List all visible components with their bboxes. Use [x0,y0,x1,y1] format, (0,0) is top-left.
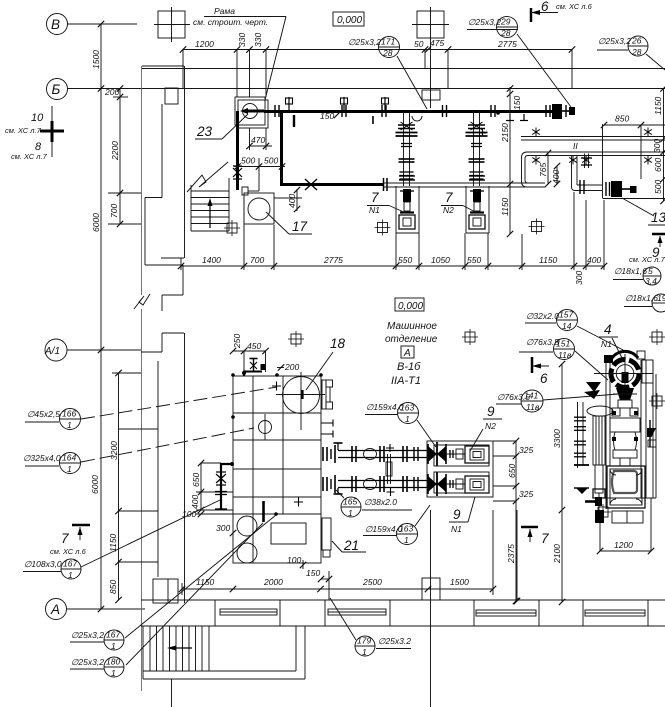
svg-text:166: 166 [62,409,76,419]
svg-text:1: 1 [362,647,367,657]
svg-text:4: 4 [604,322,612,337]
svg-text:В: В [51,17,60,32]
svg-text:180: 180 [106,657,120,667]
svg-text:1150: 1150 [500,197,510,216]
svg-text:164: 164 [62,453,76,463]
svg-text:13: 13 [651,210,665,225]
svg-text:А/1: А/1 [44,346,60,357]
svg-text:330: 330 [237,33,247,47]
svg-text:400: 400 [587,255,601,265]
svg-text:165: 165 [343,497,357,507]
svg-text:∅25x3,2: ∅25x3,2 [468,17,501,27]
svg-text:1: 1 [405,414,410,424]
svg-text:А: А [403,348,411,359]
svg-text:1: 1 [111,641,116,651]
svg-text:19: 19 [657,293,665,303]
svg-text:см. ХС л.7: см. ХС л.7 [11,152,48,161]
svg-text:600: 600 [653,158,663,172]
svg-text:5: 5 [648,266,653,276]
svg-text:11в: 11в [558,350,572,360]
svg-text:6000: 6000 [91,213,101,232]
svg-text:1: 1 [404,535,409,545]
svg-text:N2: N2 [485,421,496,431]
svg-text:500: 500 [241,156,255,166]
svg-text:II: II [573,141,578,151]
svg-text:470: 470 [251,135,265,145]
svg-text:2200: 2200 [110,141,120,161]
svg-text:11в: 11в [526,402,540,412]
svg-text:∅25x3.2: ∅25x3.2 [378,636,411,646]
svg-text:550: 550 [467,255,481,265]
svg-text:400: 400 [287,194,297,208]
svg-text:1: 1 [67,464,72,474]
svg-text:7: 7 [371,190,379,205]
svg-text:∅25x3,2: ∅25x3,2 [598,36,631,46]
svg-text:850: 850 [108,580,118,594]
svg-text:9: 9 [453,507,461,522]
svg-text:500: 500 [264,156,278,166]
svg-text:1400: 1400 [202,255,221,265]
svg-text:1150: 1150 [108,533,118,552]
svg-text:765: 765 [538,163,548,177]
svg-text:300: 300 [216,523,230,533]
svg-text:6000: 6000 [90,475,100,494]
svg-text:400: 400 [190,495,200,509]
svg-text:200: 200 [104,87,119,97]
svg-text:163: 163 [399,524,413,534]
svg-text:300: 300 [652,139,662,153]
svg-text:21: 21 [343,538,359,553]
svg-text:330: 330 [253,33,263,47]
svg-text:∅38x2.0: ∅38x2.0 [364,497,397,507]
svg-text:2500: 2500 [362,577,382,587]
svg-text:150: 150 [320,111,334,121]
svg-text:1: 1 [67,420,72,430]
svg-text:1500: 1500 [91,50,101,69]
svg-text:475: 475 [430,38,444,48]
svg-text:200: 200 [284,362,299,372]
svg-text:300: 300 [574,271,584,285]
svg-text:500: 500 [653,180,663,194]
svg-text:2000: 2000 [263,577,283,587]
svg-text:1200: 1200 [614,540,633,550]
svg-text:167: 167 [63,559,77,569]
svg-text:N1: N1 [451,524,462,534]
svg-text:см. ХС л.6: см. ХС л.6 [556,2,593,11]
svg-text:850: 850 [615,114,629,124]
svg-text:0,000: 0,000 [398,301,423,312]
svg-text:141: 141 [524,391,538,401]
svg-text:1: 1 [68,570,73,580]
svg-text:3300: 3300 [552,429,562,448]
svg-text:∅25x3,2: ∅25x3,2 [71,630,104,640]
svg-text:7: 7 [445,190,453,205]
svg-text:∅32x2.0: ∅32x2.0 [526,311,559,321]
svg-text:1050: 1050 [431,255,450,265]
svg-text:Машинное: Машинное [387,321,437,332]
svg-text:∅18x1,6: ∅18x1,6 [614,266,647,276]
svg-text:1150: 1150 [196,577,215,587]
svg-text:2775: 2775 [497,39,517,49]
svg-text:163: 163 [400,403,414,413]
svg-text:151: 151 [556,339,570,349]
svg-text:∅25x3,2: ∅25x3,2 [348,37,381,47]
svg-text:1200: 1200 [195,39,214,49]
svg-text:150: 150 [306,568,320,578]
svg-text:400: 400 [551,170,561,184]
svg-text:2100: 2100 [552,544,562,564]
svg-text:0,000: 0,000 [337,15,362,26]
svg-text:3200: 3200 [109,441,119,460]
svg-text:см. ХС л.7: см. ХС л.7 [5,126,42,135]
svg-text:1500: 1500 [450,577,469,587]
svg-text:9: 9 [487,404,495,419]
svg-text:N1: N1 [369,205,380,215]
svg-text:23: 23 [196,124,213,139]
svg-text:∅18x1,6: ∅18x1,6 [625,293,658,303]
svg-text:∅108x3,0: ∅108x3,0 [24,559,62,569]
svg-text:179: 179 [357,636,371,646]
svg-text:3,4: 3,4 [645,276,657,286]
svg-text:450: 450 [247,341,261,351]
svg-text:отделение: отделение [385,334,438,345]
svg-text:Б: Б [52,82,61,97]
svg-text:см. ХС л.6: см. ХС л.6 [50,547,87,556]
svg-text:171: 171 [381,37,395,47]
svg-text:∅25x3,2: ∅25x3,2 [71,657,104,667]
svg-text:18: 18 [330,336,346,351]
svg-text:N1: N1 [601,339,612,349]
svg-text:325: 325 [519,445,533,455]
svg-text:1: 1 [111,668,116,678]
svg-text:10: 10 [31,112,44,124]
svg-text:157: 157 [559,310,573,320]
svg-text:2775: 2775 [323,255,343,265]
svg-text:2375: 2375 [506,544,516,564]
svg-text:7: 7 [61,531,69,546]
svg-text:2150: 2150 [500,123,510,143]
svg-text:700: 700 [109,204,119,218]
svg-text:700: 700 [250,255,264,265]
svg-text:1150: 1150 [653,96,663,115]
svg-text:см. строит. черт.: см. строит. черт. [193,17,268,27]
svg-text:17: 17 [292,219,308,234]
svg-text:N2: N2 [443,205,454,215]
svg-text:Рама: Рама [214,6,235,16]
svg-text:150: 150 [512,96,522,110]
svg-text:29: 29 [500,17,511,27]
svg-text:100: 100 [287,555,301,565]
svg-text:∅325x4,0: ∅325x4,0 [23,453,61,463]
svg-text:IIА-Т1: IIА-Т1 [391,375,421,387]
svg-text:6: 6 [540,371,548,386]
svg-text:1150: 1150 [539,255,558,265]
svg-text:26: 26 [631,36,642,46]
svg-text:650: 650 [507,464,517,478]
svg-text:7: 7 [541,531,549,546]
svg-text:14: 14 [562,321,572,331]
svg-text:50: 50 [414,39,424,49]
svg-text:167: 167 [106,630,120,640]
svg-text:∅45x2,5: ∅45x2,5 [27,409,60,419]
svg-text:28: 28 [382,48,393,58]
svg-text:6: 6 [541,0,549,14]
svg-text:250: 250 [232,334,242,349]
svg-text:1: 1 [348,508,353,518]
svg-text:В-1б: В-1б [397,361,421,373]
svg-text:А: А [50,602,60,617]
svg-text:550: 550 [398,255,412,265]
svg-text:325: 325 [519,489,533,499]
svg-text:см. ХС л.7: см. ХС л.7 [629,255,665,264]
svg-text:28: 28 [631,47,642,57]
svg-text:650: 650 [191,473,201,487]
